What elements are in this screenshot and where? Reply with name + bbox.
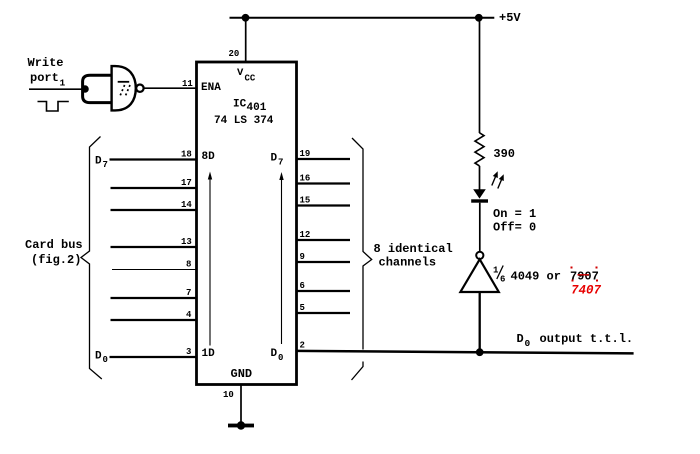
svg-text:8: 8 bbox=[186, 260, 191, 270]
internal label D7 bbox=[271, 153, 284, 168]
svg-text:12: 12 bbox=[300, 230, 311, 240]
LED light arrows bbox=[492, 171, 504, 188]
inverter U? triangle bbox=[460, 259, 498, 292]
svg-text:9: 9 bbox=[300, 252, 305, 262]
pin label VCC bbox=[237, 67, 256, 84]
svg-text:(fig.2): (fig.2) bbox=[31, 253, 81, 267]
svg-text:13: 13 bbox=[181, 237, 192, 247]
bus label D0 (left) bbox=[95, 351, 108, 366]
NAND gate body bbox=[112, 66, 136, 110]
svg-text:14: 14 bbox=[181, 200, 192, 210]
wire: card bus line pin 3 bbox=[110, 356, 197, 358]
svg-text:1: 1 bbox=[60, 78, 66, 89]
resistor 390 bbox=[475, 133, 484, 166]
wire: card bus line pin 8 bbox=[112, 269, 197, 271]
gate internal marking bbox=[118, 82, 130, 96]
internal arrow right (D0 to D7) bbox=[279, 172, 283, 344]
svg-text:1: 1 bbox=[493, 266, 499, 276]
node: D0 output junction bbox=[476, 348, 484, 356]
svg-text:20: 20 bbox=[229, 49, 240, 59]
wire: card bus line pin 13 bbox=[111, 246, 197, 248]
svg-text:11: 11 bbox=[182, 79, 193, 89]
wire: output stub pin 5 bbox=[297, 312, 351, 314]
wire: output stub pin 16 bbox=[297, 182, 351, 184]
svg-text:390: 390 bbox=[493, 147, 515, 161]
svg-text:CC: CC bbox=[245, 74, 256, 84]
wire: write port input bbox=[29, 88, 85, 90]
svg-text:D: D bbox=[271, 348, 278, 360]
node: rail to pin 20 bbox=[242, 14, 250, 22]
svg-text:IC: IC bbox=[233, 99, 247, 111]
wire: output stub pin 9 bbox=[297, 261, 351, 263]
wire: gate output to pin 11 bbox=[144, 87, 197, 89]
svg-text:401: 401 bbox=[247, 102, 267, 114]
svg-text:D: D bbox=[95, 155, 102, 167]
svg-text:10: 10 bbox=[223, 390, 234, 400]
svg-text:7907: 7907 bbox=[570, 270, 599, 284]
svg-text:5: 5 bbox=[300, 303, 305, 313]
svg-text:4049 or: 4049 or bbox=[511, 270, 561, 284]
svg-text:On = 1: On = 1 bbox=[493, 207, 536, 221]
svg-text:6: 6 bbox=[500, 275, 505, 285]
svg-text:7: 7 bbox=[103, 160, 108, 170]
wire: gate input tie loop bbox=[83, 75, 112, 102]
wire: output stub pin 19 bbox=[297, 158, 351, 160]
svg-text:GND: GND bbox=[231, 367, 253, 381]
svg-text:2: 2 bbox=[300, 341, 305, 351]
svg-text:7: 7 bbox=[186, 288, 191, 298]
wire: LED to inverter bubble bbox=[479, 203, 481, 252]
wire: output stub pin 15 bbox=[297, 204, 351, 206]
svg-text:17: 17 bbox=[181, 178, 192, 188]
label 8 identical channels bbox=[374, 242, 453, 270]
wire: D0 output line bbox=[297, 351, 634, 354]
svg-text:output t.t.l.: output t.t.l. bbox=[540, 332, 634, 346]
bus label D7 (left) bbox=[95, 155, 108, 170]
svg-text:Off= 0: Off= 0 bbox=[493, 221, 536, 235]
svg-text:ENA: ENA bbox=[201, 82, 221, 94]
svg-text:6: 6 bbox=[300, 281, 305, 291]
wire: output stub pin 12 bbox=[297, 239, 351, 241]
svg-text:19: 19 bbox=[300, 149, 311, 159]
wire: card bus line pin 18 bbox=[110, 158, 197, 160]
internal arrow left (1D to 8D) bbox=[208, 172, 212, 346]
svg-text:D: D bbox=[95, 351, 102, 363]
svg-text:8D: 8D bbox=[202, 151, 216, 163]
ground bbox=[228, 421, 254, 429]
svg-text:D: D bbox=[271, 153, 278, 165]
label Card bus (fig.2) bbox=[25, 238, 83, 267]
svg-text:V: V bbox=[237, 67, 244, 79]
label D0 output t.t.l. bbox=[517, 332, 634, 349]
svg-text:port: port bbox=[30, 71, 59, 85]
svg-text:Card bus: Card bus bbox=[25, 238, 83, 252]
red correction marks on 7907 bbox=[571, 267, 599, 282]
internal label D0 bbox=[271, 348, 284, 363]
wire: card bus line pin 4 bbox=[111, 319, 197, 321]
wire: output stub pin 6 bbox=[297, 290, 351, 292]
wire: card bus line pin 7 bbox=[111, 297, 197, 299]
inverter output bubble bbox=[476, 252, 483, 259]
wire: inverter input from D0 line bbox=[479, 292, 481, 352]
brace: 8 channels group (upper part) bbox=[352, 138, 372, 350]
wire: resistor to LED bbox=[479, 166, 481, 190]
node: rail to resistor branch bbox=[475, 14, 483, 22]
svg-text:4: 4 bbox=[186, 310, 192, 320]
wire: +5V rail bbox=[230, 17, 495, 19]
svg-text:0: 0 bbox=[278, 353, 283, 363]
svg-text:8 identical: 8 identical bbox=[374, 242, 453, 256]
svg-text:3: 3 bbox=[186, 347, 191, 357]
node: gate input junction bbox=[81, 85, 89, 93]
svg-text:7407: 7407 bbox=[571, 284, 602, 298]
label 1/6 4049 or 7907 bbox=[493, 266, 599, 285]
wire: card bus line pin 17 bbox=[111, 187, 197, 189]
label On = 1 / Off= 0 bbox=[493, 207, 536, 235]
wire: pin 10 to ground bbox=[240, 385, 242, 426]
pulse waveform symbol bbox=[38, 102, 69, 112]
svg-text:Write: Write bbox=[28, 56, 64, 70]
svg-text:D: D bbox=[517, 332, 524, 346]
LED diode bbox=[471, 189, 488, 202]
svg-text:7: 7 bbox=[278, 158, 283, 168]
svg-text:1D: 1D bbox=[202, 348, 216, 360]
wire: card bus line pin 14 bbox=[111, 209, 197, 211]
svg-text:0: 0 bbox=[103, 355, 108, 365]
svg-text:16: 16 bbox=[300, 174, 311, 184]
svg-text:channels: channels bbox=[379, 256, 437, 270]
label IC401 bbox=[233, 99, 267, 115]
svg-text:18: 18 bbox=[181, 150, 192, 160]
svg-text:+5V: +5V bbox=[499, 11, 521, 25]
svg-text:74 LS 374: 74 LS 374 bbox=[214, 115, 274, 127]
svg-text:15: 15 bbox=[300, 196, 311, 206]
gate output inversion bubble bbox=[136, 85, 143, 92]
svg-text:0: 0 bbox=[525, 338, 531, 349]
wire: supply drop to resistor bbox=[479, 18, 481, 133]
brace: card bus group bbox=[81, 137, 102, 380]
label: Write port1 bbox=[28, 56, 66, 89]
brace: 8 channels group (lower hook) bbox=[352, 362, 364, 381]
wire: pin 20 to rail bbox=[245, 18, 247, 62]
IC401 box bbox=[197, 62, 297, 385]
